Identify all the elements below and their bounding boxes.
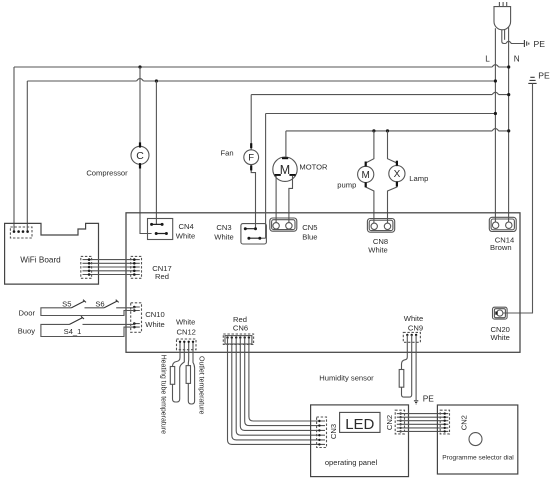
svg-text:S4_1: S4_1 — [64, 327, 82, 336]
svg-text:CN5: CN5 — [302, 223, 317, 232]
svg-text:Programme selector dial: Programme selector dial — [442, 454, 514, 461]
svg-text:WiFi Board: WiFi Board — [20, 256, 61, 265]
svg-text:C: C — [136, 150, 144, 162]
svg-text:Brown: Brown — [490, 243, 512, 252]
svg-text:White: White — [176, 317, 195, 326]
svg-text:CN3: CN3 — [216, 223, 231, 232]
svg-text:CN6: CN6 — [233, 324, 248, 333]
svg-text:Blue: Blue — [302, 232, 317, 241]
svg-text:Door: Door — [19, 308, 36, 317]
svg-text:X: X — [394, 169, 401, 180]
svg-text:PE: PE — [534, 39, 546, 49]
svg-text:S6: S6 — [95, 299, 104, 308]
svg-text:CN2: CN2 — [385, 415, 394, 430]
svg-text:Lamp: Lamp — [409, 174, 428, 183]
svg-text:Compressor: Compressor — [86, 168, 128, 177]
svg-text:White: White — [490, 333, 509, 342]
svg-text:LED: LED — [345, 416, 374, 433]
svg-text:PE: PE — [423, 394, 435, 404]
svg-text:White: White — [404, 314, 423, 323]
svg-text:N: N — [514, 55, 520, 64]
svg-text:Fan: Fan — [221, 149, 234, 158]
svg-text:CN12: CN12 — [176, 328, 195, 337]
svg-text:M: M — [280, 163, 290, 177]
svg-text:CN9: CN9 — [408, 323, 423, 332]
svg-text:Red: Red — [155, 272, 169, 281]
svg-text:CN10: CN10 — [145, 310, 164, 319]
svg-text:PE: PE — [538, 71, 550, 81]
svg-text:CN2: CN2 — [460, 415, 469, 430]
svg-text:MOTOR: MOTOR — [299, 162, 328, 171]
svg-text:Buoy: Buoy — [18, 326, 36, 335]
svg-text:CN3: CN3 — [329, 424, 338, 439]
svg-text:Outlet temperature: Outlet temperature — [198, 356, 205, 414]
svg-text:M: M — [362, 170, 370, 181]
svg-text:operating panel: operating panel — [325, 458, 378, 467]
svg-text:S5: S5 — [62, 299, 71, 308]
svg-text:CN4: CN4 — [179, 222, 194, 231]
svg-text:White: White — [368, 245, 387, 254]
svg-text:Heating tube temperature: Heating tube temperature — [160, 355, 167, 434]
svg-text:White: White — [214, 232, 233, 241]
svg-text:pump: pump — [337, 180, 356, 189]
svg-text:L: L — [485, 55, 490, 64]
svg-text:F: F — [248, 153, 254, 164]
svg-text:White: White — [176, 231, 195, 240]
svg-text:White: White — [145, 320, 164, 329]
svg-text:Humidity sensor: Humidity sensor — [319, 374, 374, 383]
